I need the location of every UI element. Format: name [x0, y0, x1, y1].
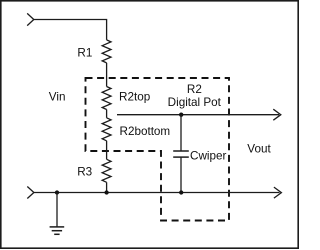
wire bottom rail	[34, 192, 280, 194]
digital pot U1 dashed outline (R2)	[86, 78, 230, 221]
ground arrow (bottom-left chevron)	[27, 187, 34, 199]
resistor R1	[77, 40, 111, 63]
wire wiper output	[117, 114, 279, 116]
junction wiper/capacitor	[179, 113, 183, 117]
arrow wiper output (right)	[273, 109, 281, 120]
label R2 Digital Pot	[168, 83, 222, 109]
junction capacitor/bottom rail	[179, 190, 183, 194]
input arrow (top-left chevron)	[27, 13, 34, 25]
svg-text:Vout: Vout	[247, 143, 271, 156]
svg-text:R1: R1	[77, 47, 92, 60]
svg-text:Digital Pot: Digital Pot	[168, 96, 222, 109]
junction ground	[55, 190, 59, 194]
arrow bottom rail (right)	[274, 187, 282, 198]
resistor R3	[77, 159, 111, 182]
wire: R3 to bottom rail	[106, 182, 108, 192]
svg-text:Cwiper: Cwiper	[190, 149, 226, 162]
svg-text:Vin: Vin	[49, 91, 66, 104]
wire: R1 to R2top	[106, 63, 108, 87]
ground	[50, 193, 65, 235]
svg-text:R3: R3	[77, 166, 92, 179]
svg-text:R2bottom: R2bottom	[120, 125, 171, 138]
wire: R2bottom to R3	[106, 141, 108, 160]
wire top: input to chain	[34, 20, 107, 40]
capacitor Cwiper	[173, 115, 226, 193]
resistor R2top	[102, 87, 150, 110]
svg-text:R2top: R2top	[119, 91, 151, 104]
svg-text:R2: R2	[187, 83, 202, 96]
wire: R2top to R2bottom	[106, 110, 108, 118]
junction chain/bottom rail	[104, 190, 108, 194]
resistor R2bottom	[102, 118, 170, 141]
